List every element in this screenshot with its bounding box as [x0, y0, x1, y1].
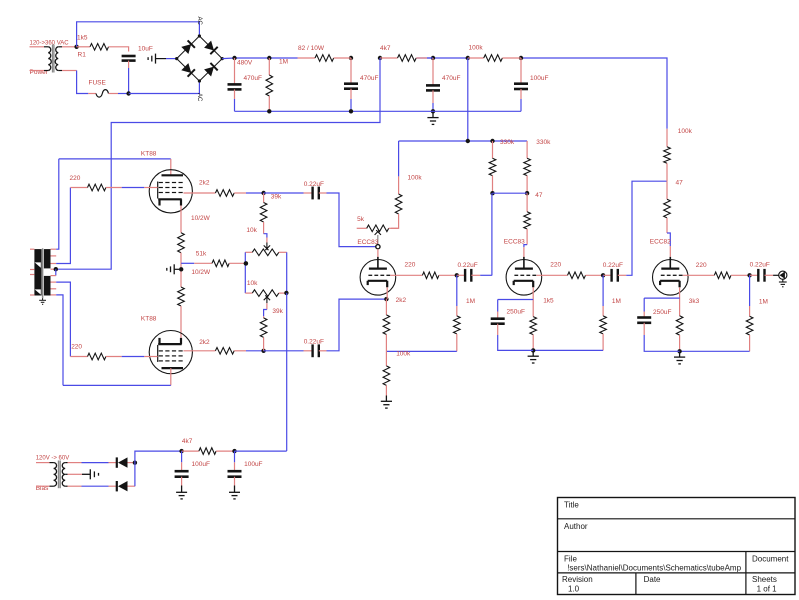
svg-text:2k2: 2k2	[199, 180, 210, 187]
svg-text:100uF: 100uF	[530, 75, 548, 82]
svg-text:10k: 10k	[247, 280, 258, 287]
svg-text:ECC82: ECC82	[650, 239, 671, 246]
svg-text:R1: R1	[78, 52, 87, 59]
svg-text:10uF: 10uF	[138, 46, 153, 53]
svg-text:100k: 100k	[396, 351, 411, 358]
svg-text:KT88: KT88	[141, 150, 157, 157]
svg-text:0.22uF: 0.22uF	[603, 262, 623, 269]
svg-text:39k: 39k	[272, 308, 283, 315]
svg-text:4k7: 4k7	[182, 438, 193, 445]
svg-text:51k: 51k	[196, 250, 207, 257]
svg-text:3k3: 3k3	[689, 298, 700, 305]
svg-text:5k: 5k	[357, 216, 365, 223]
svg-text:220: 220	[550, 262, 561, 269]
svg-text:1M: 1M	[279, 59, 288, 66]
svg-text:330k: 330k	[500, 139, 515, 146]
svg-text:1 of 1: 1 of 1	[757, 584, 778, 593]
svg-text:AC: AC	[196, 17, 202, 26]
svg-text:File: File	[564, 554, 577, 563]
svg-text:1.0: 1.0	[568, 584, 580, 593]
svg-text:4k7: 4k7	[380, 45, 391, 52]
svg-text:47: 47	[676, 180, 684, 187]
svg-text:Revision: Revision	[562, 575, 593, 584]
svg-text:0.22uF: 0.22uF	[304, 181, 324, 188]
svg-text:1M: 1M	[612, 298, 621, 305]
svg-text:KT88: KT88	[141, 315, 157, 322]
svg-text:120->360 VAC: 120->360 VAC	[30, 41, 70, 47]
svg-text:Author: Author	[564, 522, 588, 531]
svg-text:220: 220	[70, 175, 81, 182]
svg-text:!sers\Nathaniel\Documents\Sche: !sers\Nathaniel\Documents\Schematics\tub…	[567, 563, 741, 572]
svg-text:ECC83: ECC83	[504, 239, 525, 246]
svg-text:220: 220	[405, 262, 416, 269]
svg-text:0.22uF: 0.22uF	[458, 262, 478, 269]
svg-text:1k5: 1k5	[77, 35, 88, 42]
svg-text:39k: 39k	[271, 194, 282, 201]
svg-text:Title: Title	[564, 501, 579, 510]
svg-text:Document: Document	[752, 554, 789, 563]
svg-text:0.22uF: 0.22uF	[750, 261, 770, 268]
svg-text:2k2: 2k2	[396, 297, 407, 304]
svg-text:ECC83: ECC83	[357, 239, 378, 246]
svg-text:10/2W: 10/2W	[191, 215, 211, 222]
svg-text:47: 47	[535, 192, 543, 199]
svg-text:220: 220	[696, 262, 707, 269]
svg-text:0.22uF: 0.22uF	[304, 339, 324, 346]
svg-text:10/2W: 10/2W	[191, 269, 211, 276]
svg-text:AC: AC	[196, 93, 202, 102]
svg-text:100uF: 100uF	[244, 461, 262, 468]
svg-text:Date: Date	[644, 575, 661, 584]
svg-text:82 / 10W: 82 / 10W	[298, 45, 325, 52]
svg-text:Sheets: Sheets	[752, 575, 777, 584]
svg-text:FUSE: FUSE	[89, 80, 107, 87]
svg-text:470uF: 470uF	[244, 75, 262, 82]
svg-text:1M: 1M	[466, 298, 475, 305]
svg-text:100uF: 100uF	[192, 461, 210, 468]
svg-text:10k: 10k	[246, 227, 257, 234]
svg-text:100k: 100k	[678, 128, 693, 135]
svg-text:220: 220	[71, 344, 82, 351]
svg-text:470uF: 470uF	[360, 75, 378, 82]
svg-text:100k: 100k	[469, 45, 484, 52]
svg-text:1k5: 1k5	[543, 297, 554, 304]
svg-text:120V -> 60V: 120V -> 60V	[36, 456, 70, 462]
svg-text:250uF: 250uF	[653, 309, 671, 316]
svg-text:250uF: 250uF	[507, 309, 525, 316]
svg-text:330k: 330k	[536, 139, 551, 146]
svg-text:1M: 1M	[759, 299, 768, 306]
svg-text:470uF: 470uF	[442, 75, 460, 82]
svg-text:480V: 480V	[237, 60, 253, 67]
svg-text:2k2: 2k2	[199, 339, 210, 346]
svg-text:100k: 100k	[408, 175, 423, 182]
